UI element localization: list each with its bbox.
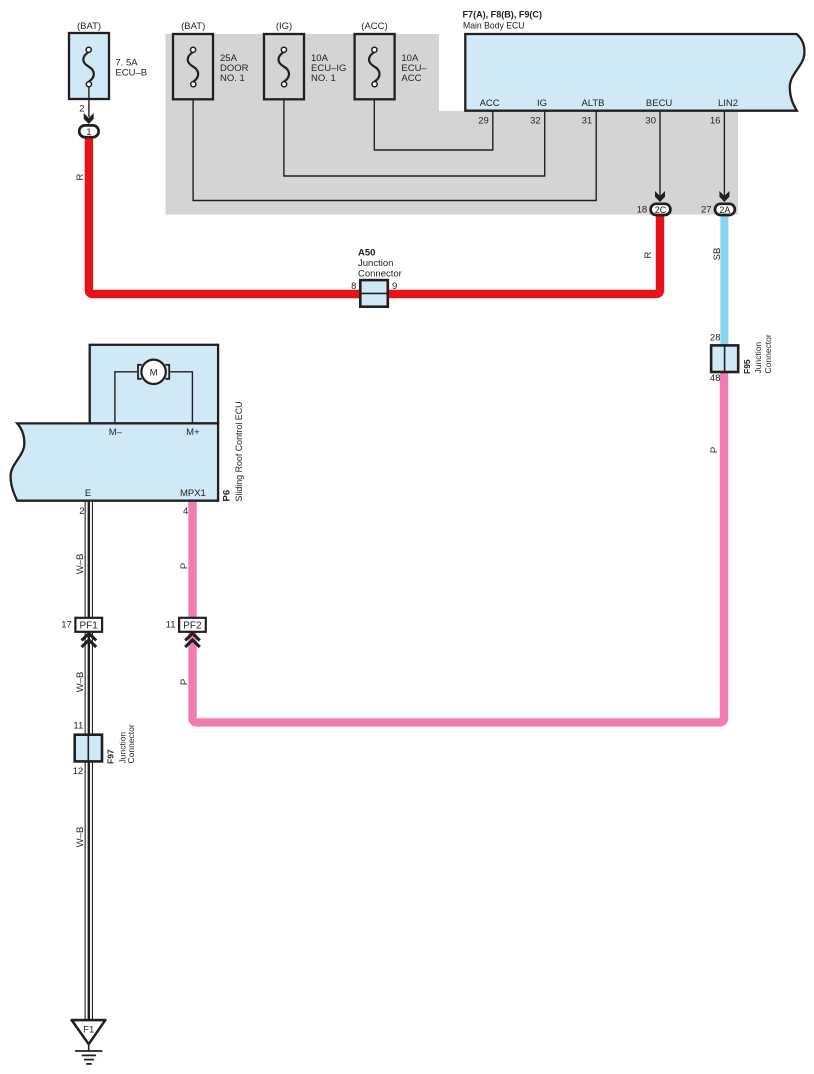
svg-text:W–B: W–B (75, 827, 86, 848)
ECU body box with wavy left edge (11, 423, 219, 500)
arrow into node 2A (719, 191, 729, 202)
motor M (141, 360, 165, 384)
harness background region (166, 34, 739, 215)
motor housing box (90, 345, 218, 424)
svg-text:F95: F95 (742, 359, 752, 374)
svg-text:W–B: W–B (75, 554, 86, 575)
W-B wire : pin E to ground F1 (85, 501, 93, 1020)
svg-text:11: 11 (166, 620, 176, 631)
svg-text:Connector: Connector (358, 269, 402, 280)
svg-text:A50: A50 (358, 248, 375, 259)
svg-text:M+: M+ (186, 427, 200, 438)
svg-text:Sliding Roof Control ECU: Sliding Roof Control ECU (234, 401, 245, 501)
fuse ECU-IG NO.1 (264, 21, 346, 99)
svg-text:NO. 1: NO. 1 (311, 73, 336, 84)
svg-text:ACC: ACC (480, 98, 500, 109)
node 1 (79, 125, 98, 137)
wire fuse ECU-IG to pin 32 IG (284, 84, 545, 176)
svg-text:29: 29 (478, 116, 489, 127)
connector PF2 (166, 618, 206, 632)
svg-text:R: R (75, 173, 86, 180)
arrow into node 1 (84, 113, 94, 124)
fuse ECU-B (69, 21, 147, 117)
svg-text:E: E (85, 488, 91, 499)
svg-text:LIN2: LIN2 (718, 98, 738, 109)
chevron below PF2 (185, 633, 200, 640)
fuse DOOR NO.1 (173, 21, 249, 99)
junction connector A50 (351, 248, 402, 307)
svg-text:30: 30 (645, 116, 656, 127)
svg-text:P6: P6 (222, 490, 233, 502)
svg-text:ALTB: ALTB (581, 98, 604, 109)
svg-text:4: 4 (183, 506, 188, 517)
svg-text:IG: IG (537, 98, 547, 109)
svg-text:F7(A), F8(B), F9(C): F7(A), F8(B), F9(C) (463, 10, 543, 21)
svg-text:31: 31 (582, 116, 593, 127)
svg-text:M: M (150, 368, 158, 379)
wire motor to M- (115, 372, 137, 424)
svg-text:(BAT): (BAT) (181, 21, 205, 32)
svg-text:Connector: Connector (763, 334, 773, 373)
svg-text:16: 16 (710, 116, 721, 127)
svg-text:BECU: BECU (646, 98, 673, 109)
svg-text:9: 9 (392, 281, 397, 292)
svg-text:PF2: PF2 (183, 621, 202, 632)
svg-text:1: 1 (86, 127, 91, 138)
svg-text:MPX1: MPX1 (180, 488, 206, 499)
junction connector F97 (73, 721, 136, 778)
svg-text:27: 27 (701, 205, 712, 216)
svg-text:12: 12 (73, 766, 84, 777)
chevron below PF1 (82, 633, 97, 640)
svg-text:(ACC): (ACC) (361, 21, 387, 32)
svg-text:ACC: ACC (401, 73, 421, 84)
svg-text:M–: M– (109, 427, 123, 438)
pink wire P : MPX1 to PF2 to F95 (193, 372, 725, 723)
svg-text:28: 28 (710, 333, 721, 344)
sky blue wire SB : node 2A to F95 (720, 215, 728, 346)
Sliding Roof Control ECU P6 (11, 345, 245, 502)
svg-text:2C: 2C (655, 205, 667, 215)
svg-text:48: 48 (710, 373, 721, 384)
ground F1 (71, 1020, 107, 1064)
svg-text:2: 2 (79, 506, 84, 517)
svg-text:Junction: Junction (358, 258, 393, 269)
svg-text:R: R (643, 251, 654, 258)
svg-text:18: 18 (637, 205, 648, 216)
svg-text:SB: SB (712, 248, 723, 261)
arrow into node 2C (655, 191, 665, 202)
svg-text:8: 8 (351, 281, 356, 292)
svg-text:F97: F97 (106, 749, 116, 764)
svg-text:2: 2 (79, 104, 84, 115)
svg-text:17: 17 (61, 620, 72, 631)
svg-text:Junction: Junction (753, 342, 763, 374)
wire fuse ECU-ACC to pin 29 ACC (374, 84, 493, 150)
svg-text:11: 11 (73, 721, 83, 732)
fuse ECU-ACC (355, 21, 428, 99)
svg-text:P: P (179, 563, 190, 569)
wire pin 30 BECU to node 2C (659, 111, 661, 196)
svg-text:P: P (179, 679, 190, 685)
wire fuse DOOR to pin 31 ALTB (193, 84, 596, 201)
svg-text:PF1: PF1 (80, 621, 99, 632)
svg-text:2A: 2A (719, 205, 730, 215)
svg-text:NO. 1: NO. 1 (220, 73, 245, 84)
wire motor to M+ (170, 372, 192, 424)
svg-text:(BAT): (BAT) (77, 21, 101, 32)
svg-text:P: P (709, 447, 720, 453)
junction connector F95 (710, 333, 773, 385)
svg-text:Connector: Connector (126, 724, 136, 763)
svg-text:ECU–B: ECU–B (115, 67, 147, 78)
node 2A (715, 204, 735, 215)
svg-text:(IG): (IG) (276, 21, 292, 32)
red wire R : node 1 to node 2C (89, 137, 660, 294)
svg-text:F1: F1 (83, 1025, 94, 1036)
svg-text:W–B: W–B (75, 672, 86, 693)
Main Body ECU U:F7(A),F8(B),F9(C) (463, 10, 805, 111)
svg-text:Main Body ECU: Main Body ECU (463, 21, 525, 32)
node 2C (651, 204, 671, 215)
connector PF1 (61, 618, 102, 632)
svg-text:32: 32 (530, 116, 541, 127)
wire pin 16 LIN2 to node 2A (723, 111, 725, 196)
